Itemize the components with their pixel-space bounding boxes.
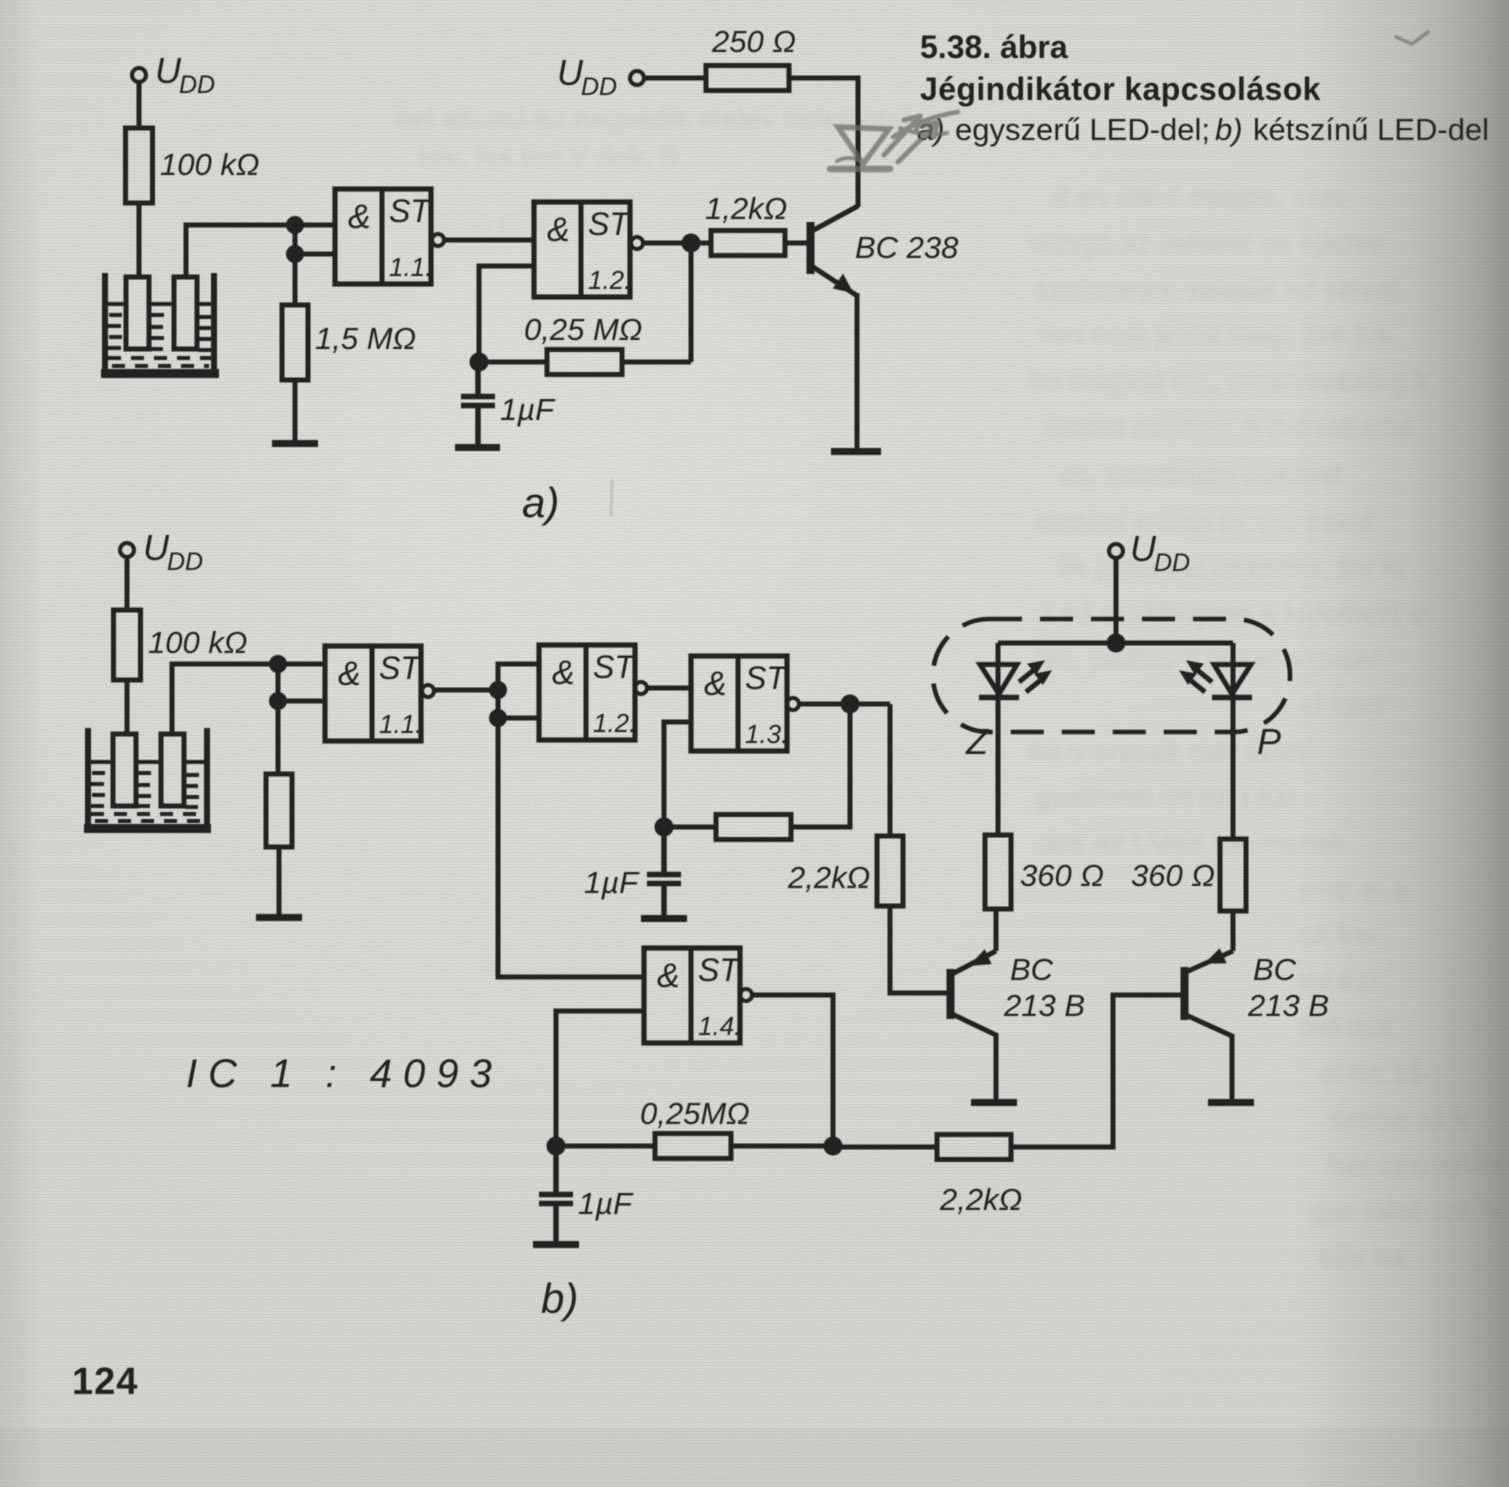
wire to R 2,2k vertical (b) — [888, 704, 893, 836]
wire node up to gate 1.2 top input (b) — [498, 664, 539, 690]
terminal UDD (a, left) — [132, 68, 146, 82]
node 1.3 out (b) — [841, 695, 860, 714]
svg-text:P: P — [1257, 721, 1281, 762]
gate U1.1 (a) — [335, 189, 444, 284]
pencil stroke over caption a) — [893, 112, 958, 137]
svg-text:100 kΩ: 100 kΩ — [148, 625, 247, 660]
sensor electrode left (b) — [113, 734, 136, 806]
svg-text:1.2.: 1.2. — [588, 265, 631, 295]
resistor 0,25 MOhm (a) — [547, 350, 622, 375]
wire feedback left (a) — [622, 360, 691, 365]
svg-text:360 Ω: 360 Ω — [1020, 858, 1104, 893]
svg-text:1.4.: 1.4. — [698, 1011, 741, 1041]
sensor electrode right (b) — [161, 734, 184, 806]
gate U1.4 (b) — [644, 948, 752, 1043]
svg-text:5.38. ábra: 5.38. ábra — [920, 29, 1068, 65]
PENCIL — [611, 32, 1428, 515]
sensor electrode left (a) — [126, 277, 149, 349]
wire R 2,2k to base Q2 (b) — [1011, 995, 1181, 1147]
wire node down to gate 1.4 (b) — [498, 718, 644, 977]
transistor BC 238 (a) — [810, 206, 858, 449]
svg-text:&: & — [547, 211, 570, 249]
svg-text:ST: ST — [389, 193, 432, 229]
node input (b) — [269, 655, 287, 673]
caption line 3 — [917, 112, 1489, 147]
water dashes (b) — [91, 773, 206, 821]
pencil check mark top right — [1396, 32, 1428, 44]
pencil tick near a) label — [611, 481, 612, 515]
LED Z (b) — [979, 643, 1051, 835]
svg-text:DD: DD — [581, 73, 617, 101]
svg-text:a): a) — [522, 479, 559, 526]
vessel (b) — [84, 728, 211, 829]
wire node to gate 1.1 lower input (b) — [278, 699, 325, 704]
wire R 100k to electrode (b) — [125, 680, 130, 736]
node input 2 (a) — [286, 245, 304, 263]
node 1.1 out 2 (b) — [489, 709, 507, 727]
wire R 2,2k to base Q1 (b) — [890, 906, 947, 993]
terminal UDD (b, left) — [120, 543, 134, 557]
resistor 250 Ohm (a) — [706, 66, 789, 91]
wire R 100k to electrode (a) — [137, 203, 142, 279]
svg-text:DD: DD — [167, 548, 203, 576]
wire gate 1.1 output (b) — [434, 688, 498, 693]
wire R 250 to LED / collector (a) — [789, 78, 858, 207]
svg-text:ST: ST — [588, 206, 631, 242]
svg-text:ST: ST — [745, 660, 788, 696]
pencil LED arrow 1 (a) — [884, 116, 920, 155]
wire node to feedback R (b) — [664, 825, 716, 830]
resistor 0,25 MOhm (b) — [655, 1134, 731, 1159]
wire node to R 0,25M (b) — [556, 1144, 655, 1149]
wire gate 1.2 output (a) — [643, 241, 711, 246]
svg-text:100 kΩ: 100 kΩ — [160, 147, 259, 182]
svg-text:nel akumil ez nagyedik melev h: nel akumil ez nagyedik melev hidelantul — [395, 104, 910, 134]
svg-text:U: U — [155, 50, 182, 91]
svg-text:1.2.: 1.2. — [593, 708, 636, 738]
svg-text:IC 1 : 4093: IC 1 : 4093 — [186, 1052, 503, 1096]
svg-text:gsetloem dit ha LED: gsetloem dit ha LED — [1035, 782, 1297, 812]
dashed outline two-colour LED (b) — [933, 619, 1290, 732]
ground (b, cap2) — [533, 1241, 579, 1248]
label UDD (b, right) — [1130, 528, 1190, 577]
svg-text:2,2kΩ: 2,2kΩ — [787, 860, 870, 895]
svg-text:1µF: 1µF — [584, 865, 640, 900]
ground (a, under 1uF) — [455, 444, 500, 451]
wire electrode to gate 1.1 input (b) — [172, 664, 325, 734]
resistor 100 kOhm (a) — [126, 128, 153, 203]
label UDD (a, left) — [155, 50, 215, 99]
wire node to R 2,2k horizontal (b) — [833, 1145, 937, 1150]
svg-text:DD: DD — [1154, 549, 1190, 577]
capacitor 1uF (b, second) — [539, 1146, 573, 1242]
wire UDD to R 100k (b) — [125, 557, 130, 610]
pencil LED sketch triangle (a) — [838, 127, 889, 164]
svg-text:DD: DD — [179, 71, 215, 99]
ground (b, pulldown) — [256, 914, 302, 921]
transistor Q1 BC 213 B (b, left) — [951, 909, 997, 1100]
ground (a, emitter) — [831, 448, 881, 455]
svg-text:250 Ω: 250 Ω — [711, 24, 796, 59]
wire node to gate 1.1 lower input (a) — [295, 252, 335, 257]
svg-text:124: 124 — [72, 1361, 138, 1403]
gate U1.2 (a) — [534, 202, 643, 297]
svg-text:ST: ST — [593, 649, 636, 685]
node LED rail (b) — [1107, 634, 1126, 653]
svg-text:ST: ST — [379, 650, 422, 686]
svg-text:1µF: 1µF — [500, 392, 556, 427]
terminal UDD (b, right) — [1109, 544, 1123, 558]
water dashes (a) — [108, 315, 213, 366]
svg-text:1,5 MΩ: 1,5 MΩ — [315, 321, 416, 356]
node feedback 1.3 (b) — [655, 818, 674, 837]
wire node down to feedback (a) — [689, 243, 694, 362]
svg-text:1µF: 1µF — [578, 1186, 634, 1221]
svg-text:&: & — [704, 665, 727, 703]
ground (b, cap1) — [641, 915, 687, 922]
wire LED common rail (b) — [998, 641, 1233, 646]
wire node to gate 1.2 lower input (b) — [498, 690, 539, 718]
wire UDD to R 100k (a) — [137, 82, 142, 128]
ground (b, Q1) — [971, 1099, 1017, 1106]
svg-text:U: U — [1130, 528, 1157, 569]
svg-text:ST: ST — [698, 952, 741, 988]
wire gate 1.3 lower input (b) — [664, 722, 691, 827]
wire base R 1,2k (a) — [691, 241, 711, 246]
svg-text:2,2kΩ: 2,2kΩ — [939, 1182, 1022, 1217]
pencil LED sketch bar (a) — [830, 166, 890, 173]
wire R 1,5M to ground (a) — [293, 380, 298, 442]
svg-text:b): b) — [1215, 112, 1243, 147]
ground (a, under 1,5M) — [272, 440, 318, 447]
node cap2 (b) — [547, 1137, 566, 1156]
wire node to node (b) — [276, 664, 281, 774]
gate U1.2 (b) — [539, 645, 647, 740]
svg-text:1.1.: 1.1. — [389, 252, 432, 282]
node bottom rail (b) — [824, 1137, 843, 1156]
terminal UDD (a, right) — [630, 71, 644, 85]
node input (a) — [286, 216, 304, 234]
svg-text:b): b) — [541, 1275, 578, 1322]
capacitor 1uF (b, first) — [647, 827, 681, 916]
sensor electrode right (a) — [174, 277, 197, 349]
svg-text:BC: BC — [1010, 952, 1054, 987]
ground (b, Q2) — [1208, 1099, 1254, 1106]
svg-text:&: & — [657, 957, 680, 995]
node 1.1 out (b) — [489, 681, 507, 699]
wire feedback to node (a) — [479, 360, 547, 365]
resistor 2,2 kOhm horizontal (b) — [937, 1135, 1011, 1160]
label Q1 BC 213 B — [1003, 952, 1085, 1023]
svg-text:egyszerű LED-del;: egyszerű LED-del; — [955, 112, 1210, 147]
svg-text:1.1.: 1.1. — [379, 709, 422, 739]
wire feedback R to output node (b) — [791, 704, 850, 827]
svg-text:U: U — [557, 52, 584, 93]
wire rail to UDD (b) — [1114, 558, 1119, 643]
wire gate 1.3 output (b) — [799, 702, 890, 707]
wire node to node (a) — [293, 225, 298, 305]
svg-text:BC: BC — [1253, 952, 1297, 987]
wire UDD to R 250 (a) — [644, 76, 706, 81]
resistor 360 Ohm (b, right) — [1220, 839, 1246, 911]
resistor 360 Ohm (b, left) — [985, 835, 1011, 909]
svg-text:360 Ω: 360 Ω — [1131, 858, 1215, 893]
node feedback (a) — [470, 353, 489, 372]
svg-text:0,25MΩ: 0,25MΩ — [640, 1096, 750, 1131]
transistor Q2 BC 213 B (b, right) — [1185, 911, 1234, 1100]
wire gate 1.1 to gate 1.2 (a) — [444, 238, 534, 243]
wire R 0,25M to node (b) — [731, 1144, 833, 1149]
label UDD (a, right) — [557, 52, 617, 101]
resistor pulldown (b, unlabeled) — [266, 774, 292, 847]
pencil LED arrow 2 (a) — [898, 122, 938, 162]
capacitor 1uF (a) — [461, 362, 495, 445]
water surface (a) — [107, 302, 212, 306]
svg-text:0,25 MΩ: 0,25 MΩ — [524, 312, 642, 347]
wire gate 1.2 to gate 1.3 (b) — [647, 686, 691, 691]
resistor 2,2 kOhm vertical (b) — [877, 836, 903, 906]
svg-text:tek, Ha teh Y rlek, B: tek, Ha teh Y rlek, B — [420, 142, 680, 172]
svg-text:U: U — [143, 527, 170, 568]
resistor feedback (b, unlabeled) — [716, 815, 791, 840]
svg-text:BC 238: BC 238 — [855, 230, 959, 265]
wire R 1,2k to base (a) — [785, 241, 807, 246]
svg-text:&: & — [348, 198, 371, 236]
resistor 100 kOhm (b) — [114, 610, 141, 680]
resistor 1,2 kOhm (a) — [711, 231, 785, 256]
wire gate 1.2 feedback input (a) — [479, 266, 534, 359]
resistor 1,5 MOhm (a) — [282, 305, 308, 380]
label UDD (b, left) — [143, 527, 203, 576]
wire R to ground (b) — [277, 847, 282, 915]
node input 2 (b) — [269, 692, 287, 710]
gate U1.1 (b) — [325, 646, 434, 741]
wire electrode to gate 1.1 input (a) — [186, 225, 335, 277]
svg-text:1.3.: 1.3. — [745, 719, 788, 749]
svg-text:&: & — [338, 655, 361, 693]
EDGES — [1295, 0, 1509, 1487]
water surface (b) — [90, 760, 205, 764]
svg-text:&: & — [552, 654, 575, 692]
GHOST — [395, 104, 1508, 1272]
gate U1.3 (b) — [691, 656, 799, 751]
wire gate 1.4 output (b) — [752, 995, 833, 1147]
svg-text:1,2kΩ: 1,2kΩ — [705, 191, 787, 226]
LED P (b) — [1180, 643, 1252, 839]
node output 1.2 (a) — [682, 234, 701, 253]
svg-text:213 B: 213 B — [1003, 988, 1085, 1023]
svg-text:Jégindikátor kapcsolások: Jégindikátor kapcsolások — [920, 71, 1321, 107]
label Q2 BC 213 B — [1247, 952, 1329, 1023]
vessel (a) — [101, 273, 219, 374]
wire gate 1.4 lower input (b) — [556, 1011, 644, 1146]
